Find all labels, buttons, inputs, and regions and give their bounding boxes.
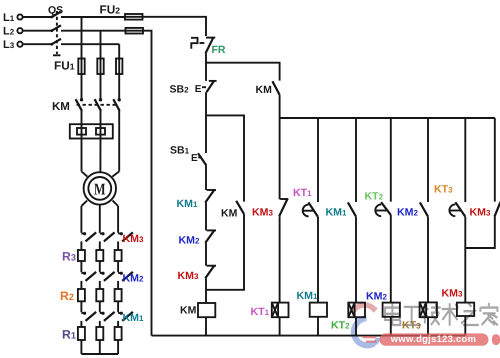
- terminal L1: [17, 14, 22, 19]
- svg-text:L3: L3: [3, 39, 15, 51]
- svg-text:KM1: KM1: [123, 312, 144, 324]
- wire branch 2 rail to KT1 contact: [317, 118, 319, 202]
- svg-text:KT1: KT1: [293, 187, 312, 199]
- pushbutton SB2 stop contact: [195, 81, 217, 95]
- contactor KM1 NC interlock contact: [205, 190, 216, 203]
- wire phase B through heater: [99, 124, 101, 172]
- wire branch 3 rail to KM1 contact: [355, 118, 357, 202]
- time contact KT2 delayed closing: [375, 202, 391, 216]
- watermark char dian: [385, 303, 400, 325]
- wire KM3 interlock to KM coil: [205, 278, 207, 303]
- contactor KM1 shorting contact C: [118, 312, 133, 321]
- motor M lead A diagonal: [82, 171, 88, 176]
- contactor KM2 NO contact branch 5: [420, 202, 428, 216]
- coil KT3 time relay: [420, 302, 437, 317]
- svg-text:FR: FR: [212, 44, 226, 56]
- wire L2 fuse to control return vertical: [143, 31, 152, 336]
- wire A R3 to KM2 row: [80, 261, 82, 272]
- contactor KM2 shorting contact C: [118, 272, 133, 281]
- wire B to R1: [99, 321, 101, 327]
- wire KM3 coil to bottom rail: [464, 316, 466, 336]
- wire C R3 to KM2 row: [117, 261, 119, 272]
- wire KM2 contact to KT3 coil: [427, 217, 429, 303]
- svg-text:R2: R2: [60, 289, 74, 303]
- contactor KM main contact pole B: [95, 98, 103, 111]
- time contact KT1 delayed closing: [303, 202, 318, 217]
- switch QS pole 2 blade: [50, 25, 61, 32]
- coil KM: [198, 303, 215, 317]
- wire KM3 contact to KT1 coil: [279, 216, 281, 302]
- svg-text:KM2: KM2: [397, 207, 418, 219]
- svg-text:E: E: [191, 153, 198, 164]
- wire phase B KM to FR box: [100, 111, 102, 125]
- contactor KM1 shorting contact B: [100, 312, 115, 321]
- svg-text:www.dgjs123.com: www.dgjs123.com: [390, 333, 476, 344]
- thermal relay FR heater box: [70, 124, 113, 138]
- wire A R2 to KM1 row: [80, 301, 82, 312]
- resistor R3 phase B: [96, 250, 103, 261]
- watermark char ji: [422, 303, 441, 325]
- wire branch 5 rail to KM2 contact: [427, 118, 429, 202]
- svg-text:SB1: SB1: [170, 144, 190, 156]
- resistor R3 phase A: [78, 250, 85, 261]
- wire L3 to QS: [23, 43, 52, 45]
- wire SB1 to KM1 contact: [205, 165, 207, 190]
- contactor KM linkage dashed: [77, 104, 118, 106]
- wire L3 after QS: [61, 43, 119, 45]
- wire phase C vertical to FU1: [118, 44, 120, 58]
- svg-text:FU2: FU2: [100, 2, 121, 16]
- fuse FU1 pole A: [78, 59, 84, 75]
- wire branch 7 rail to KM3 hold contact: [494, 118, 496, 202]
- svg-text:KM: KM: [180, 304, 197, 316]
- wire L1 after QS: [61, 16, 125, 18]
- wire rotor B down: [99, 205, 101, 233]
- wire KM contact to rail: [279, 95, 281, 118]
- wire rotor A down: [80, 206, 82, 233]
- wire branch rail horizontal: [280, 117, 495, 119]
- FR heater element A: [77, 128, 86, 135]
- resistor R1 phase B: [96, 327, 103, 340]
- watermark char jia: [480, 303, 497, 325]
- wire bottom rail: [152, 335, 466, 337]
- watermark logo swirl: [353, 305, 379, 345]
- fuse FU2 pole 2: [126, 28, 144, 34]
- watermark char gong: [402, 307, 421, 325]
- svg-text:R3: R3: [62, 249, 76, 263]
- FR heater element B: [96, 128, 105, 135]
- fuse FU1 pole B: [97, 59, 103, 75]
- wire KT3 contact to KM3 coil: [464, 217, 466, 303]
- motor M outlet C diagonal: [113, 201, 119, 206]
- wire A to R2: [80, 281, 82, 289]
- svg-text:KM1: KM1: [297, 290, 318, 302]
- wire rotor C down: [117, 206, 119, 233]
- wire A to R1: [80, 321, 82, 327]
- switch QS linkage end tick: [53, 54, 61, 56]
- switch QS pole 3 blade: [50, 39, 61, 46]
- pushbutton SB1 start contact: [191, 153, 206, 165]
- wire A R1 to star point: [80, 340, 82, 354]
- contactor KM self-hold contact: [236, 201, 244, 214]
- wire B R3 to KM2 row: [99, 261, 101, 272]
- contactor KM main contact pole C: [113, 98, 121, 111]
- motor M lead C diagonal: [112, 171, 119, 176]
- svg-text:KM: KM: [221, 207, 238, 219]
- contactor KM3 NC interlock contact: [205, 265, 216, 278]
- svg-text:M: M: [94, 180, 106, 199]
- wire B R2 to KM1 row: [99, 301, 101, 312]
- contactor KM auxiliary contact upper: [272, 81, 279, 95]
- resistor R3 phase C: [115, 250, 122, 261]
- coil KM2: [383, 303, 400, 317]
- coil KM1: [310, 303, 327, 317]
- terminal L2: [17, 28, 22, 33]
- wire C R2 to KM1 row: [117, 301, 119, 312]
- wire phase B FU1 to KM: [100, 74, 102, 99]
- terminal L3: [17, 42, 22, 47]
- wire phase C FU1 to KM: [118, 74, 120, 99]
- wire phase A through heater: [81, 124, 83, 171]
- wire KT2 contact to KM2 coil: [390, 215, 392, 303]
- wire KM1 to KM2 interlock: [205, 203, 207, 231]
- svg-text:KM2: KM2: [366, 291, 387, 303]
- wire branch 1 rail to KM3 contact: [279, 118, 281, 199]
- svg-text:SB2: SB2: [170, 84, 190, 96]
- wire phase C KM down: [118, 111, 120, 172]
- wire B to R2: [99, 281, 101, 289]
- svg-text:KM2: KM2: [123, 272, 144, 284]
- wire KM2 to KM3 interlock: [205, 243, 207, 266]
- wire KT1 contact to KM1 coil: [317, 217, 319, 303]
- watermark text dgjs: [385, 303, 498, 326]
- contactor KM2 shorting contact B: [100, 272, 115, 281]
- contactor KM3 shorting contact C: [118, 232, 133, 241]
- wire KM2 coil to bottom rail: [390, 317, 392, 336]
- svg-text:FU1: FU1: [54, 58, 75, 72]
- svg-text:KM3: KM3: [178, 270, 199, 282]
- wire self-hold join from branch 7: [465, 217, 495, 248]
- watermark char shu: [442, 303, 458, 325]
- motor M outlet A diagonal: [81, 201, 87, 206]
- wire SB2 to junction: [205, 92, 207, 153]
- svg-text:KM3: KM3: [252, 206, 273, 218]
- wire C R1 to star point: [117, 340, 119, 354]
- thermal relay FR trip contact: [191, 37, 215, 53]
- wire KT2 coil to bottom rail: [355, 317, 357, 335]
- wire KM1 coil to bottom rail: [317, 317, 319, 336]
- motor M outer circle: [84, 172, 116, 204]
- wire A to R3: [80, 241, 82, 250]
- wire phase A vertical to FU1: [81, 17, 83, 59]
- wire KT3 coil to bottom rail: [427, 317, 429, 335]
- wire C to R3: [117, 241, 119, 250]
- svg-text:E: E: [195, 84, 202, 95]
- wire star point tie: [81, 353, 118, 355]
- contactor KM3 shorting contact B: [100, 232, 115, 241]
- resistor R2 phase C: [115, 289, 122, 301]
- svg-text:KM2: KM2: [179, 235, 200, 247]
- svg-text:KM3: KM3: [442, 287, 463, 299]
- wire B R1 to star point: [99, 340, 101, 354]
- wire L1 fuse to control vertical: [143, 17, 207, 36]
- svg-text:R1: R1: [62, 327, 76, 341]
- contactor KM3 NO self-hold contact branch 7: [495, 202, 500, 217]
- wire branch 4 rail to KT2 contact: [390, 118, 392, 202]
- svg-text:L1: L1: [3, 12, 15, 24]
- svg-text:KM: KM: [52, 101, 70, 113]
- wire branch to KM hold contact top: [206, 63, 280, 81]
- resistor R2 phase B: [96, 289, 103, 301]
- watermark banner: [363, 333, 500, 346]
- wire KT1 coil to bottom rail: [279, 317, 281, 335]
- switch QS pole 1 blade: [50, 12, 61, 19]
- coil KT2 time relay: [348, 303, 365, 318]
- svg-text:KT2: KT2: [331, 319, 350, 331]
- contactor KM1 shorting contact A: [81, 312, 96, 321]
- wire KM1 contact to KT2 coil: [355, 217, 357, 303]
- coil KM3: [457, 303, 474, 316]
- motor M inner circle: [88, 177, 111, 200]
- contactor KM1 NO contact branch 3: [348, 202, 356, 216]
- wire L2 after QS: [61, 30, 126, 32]
- contactor KM2 NC interlock contact: [205, 230, 216, 243]
- wire branch 6 rail to KT3 contact: [464, 118, 466, 202]
- svg-text:KT1: KT1: [251, 306, 270, 318]
- fuse FU2 pole 1: [125, 14, 143, 20]
- contactor KM3 NC contact branch 1: [279, 199, 288, 217]
- svg-text:KM3: KM3: [470, 206, 491, 218]
- switch QS linkage dashed: [56, 11, 58, 54]
- wire C to R1: [117, 321, 119, 327]
- fuse FU1 pole C: [116, 59, 122, 75]
- resistor R2 phase A: [78, 289, 85, 301]
- contactor KM2 shorting contact A: [81, 272, 96, 281]
- resistor R1 phase C: [115, 327, 122, 340]
- svg-text:KT2: KT2: [365, 191, 384, 203]
- wire junction to self-hold branch: [206, 115, 244, 201]
- contactor KM3 shorting contact A: [81, 232, 96, 241]
- time contact KT3 delayed closing: [449, 202, 465, 216]
- wire self-hold branch down: [206, 214, 244, 290]
- svg-text:KM1: KM1: [326, 207, 347, 219]
- svg-text:L2: L2: [3, 26, 15, 38]
- watermark char zhi: [461, 303, 479, 325]
- wire B to R3: [99, 241, 101, 250]
- wire phase A FU1 to KM: [81, 74, 83, 99]
- svg-text:KM1: KM1: [177, 198, 198, 210]
- wire phase A KM to FR box: [81, 111, 83, 125]
- wire FR to SB2: [205, 53, 207, 81]
- svg-text:KM: KM: [256, 84, 273, 96]
- wire phase B vertical to FU1: [100, 31, 102, 59]
- resistor R1 phase A: [78, 327, 85, 340]
- contactor KM main contact pole A: [76, 98, 84, 111]
- svg-text:KT3: KT3: [434, 183, 453, 195]
- wire KM coil to bottom rail: [205, 317, 207, 335]
- svg-text:KM3: KM3: [123, 233, 144, 245]
- wire L2 to QS: [23, 30, 52, 32]
- wire C to R2: [117, 281, 119, 289]
- svg-text:KT3: KT3: [402, 320, 421, 332]
- wire L1 to QS: [23, 16, 52, 18]
- coil KT1 time relay: [272, 303, 289, 318]
